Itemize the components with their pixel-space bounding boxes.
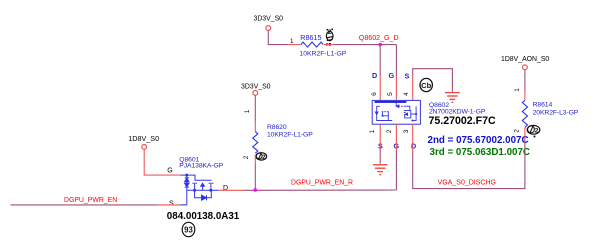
svg-text:DGPU_PWR_EN_R: DGPU_PWR_EN_R (291, 180, 353, 187)
wire R8615 pin2 to node Q8602_G_D (324, 44, 396, 46)
wire R8620 pin 2 down to node (254, 155, 256, 191)
wire Q8602 pin 1 to ground (379, 124, 381, 164)
component labels Q8602 (429, 102, 486, 116)
ground (top right) (445, 93, 460, 103)
svg-text:2: 2 (386, 129, 393, 133)
wire Q8602 pin 4 (S) to ground (top right) (413, 69, 453, 101)
svg-text:D: D (411, 142, 416, 151)
wire node to Q8602 pin 5 (G) (395, 45, 397, 101)
svg-text:3D3V_S0: 3D3V_S0 (254, 16, 284, 23)
svg-text:93: 93 (184, 226, 193, 235)
svg-text:084.00138.0A31: 084.00138.0A31 (167, 211, 240, 222)
svg-text:2: 2 (243, 155, 250, 159)
component labels Q8601 (179, 156, 223, 169)
wire 1D8V_AON_S0 to R8614 pin 1 (524, 70, 526, 101)
junction dot at R8620/Q8601-D node (254, 188, 258, 192)
resistor R8620 (253, 124, 313, 153)
svg-text:1: 1 (244, 109, 251, 113)
svg-text:Q8602_G_D: Q8602_G_D (359, 34, 399, 42)
svg-text:5: 5 (387, 92, 394, 96)
pin number 2 of R8620 with no-stuff marker (243, 153, 267, 161)
wire node to Q8602 pin 6 (D) (379, 45, 381, 101)
svg-text:1: 1 (514, 88, 521, 92)
power symbol 3D3V_S0 (top, feeds R8615) (254, 16, 284, 31)
resistor R8615 (300, 33, 347, 58)
power symbol 1D8V_S0 (128, 134, 159, 149)
svg-text:6: 6 (371, 92, 378, 96)
svg-text:G: G (389, 71, 395, 80)
svg-text:DGPU_PWR_EN: DGPU_PWR_EN (64, 197, 117, 204)
junction dot at Q8602_G_D node (378, 43, 382, 47)
svg-text:2: 2 (328, 29, 332, 36)
svg-text:R8615: R8615 (300, 33, 321, 42)
wire from 3D3V_S0 to R8615 pin 1 (268, 30, 300, 44)
transistor U Q8602 dual MOSFET box (372, 100, 420, 124)
transistor Q8601 (dual MOSFET with gate zeners) (181, 174, 219, 205)
svg-text:2: 2 (262, 154, 266, 161)
pin number 2 of R8614 with no-stuff marker (514, 125, 540, 137)
ground (below Q8602 pin 1) (373, 165, 388, 175)
wire DGPU_PWR_EN to Q8601 S (11, 204, 187, 206)
svg-text:S: S (169, 200, 174, 207)
Q8602 internal MOSFET B (right) (396, 103, 417, 121)
svg-text:G: G (167, 167, 172, 174)
svg-text:1D8V_AON_S0: 1D8V_AON_S0 (501, 56, 549, 63)
resistor R8614 (522, 100, 579, 127)
svg-text:VGA_S0_DISCHG: VGA_S0_DISCHG (438, 180, 496, 187)
svg-text:75.27002.F7C: 75.27002.F7C (429, 115, 496, 127)
svg-text:R8620: R8620 (267, 124, 287, 131)
wire 3D3V_S0 to R8620 pin 1 (254, 95, 256, 131)
svg-text:R8614: R8614 (533, 102, 553, 109)
power symbol 1D8V_AON_S0 (501, 56, 549, 70)
svg-text:S: S (405, 71, 410, 80)
svg-text:2: 2 (535, 128, 539, 135)
power symbol 3D3V_S0 (middle, feeds R8620) (241, 84, 271, 96)
svg-text:2: 2 (514, 129, 521, 133)
svg-text:10KR2F-L1-GP: 10KR2F-L1-GP (300, 51, 347, 58)
svg-text:4: 4 (403, 92, 410, 96)
marker Cb (circled) (420, 78, 432, 91)
wire 1D8V_S0 to Q8601 gate (144, 149, 180, 175)
svg-text:PJA138KA-GP: PJA138KA-GP (179, 162, 223, 169)
marker 93 (circled) (182, 222, 195, 236)
Q8602 internal MOSFET A (left) (375, 106, 392, 120)
svg-text:3rd = 075.063D1.007C: 3rd = 075.063D1.007C (430, 147, 531, 158)
svg-text:2nd = 075.67002.007C: 2nd = 075.67002.007C (428, 135, 529, 146)
pin number 2 of R8615 with no-stuff marker (326, 29, 334, 47)
svg-text:D: D (372, 71, 377, 80)
wire Q8601 D to node / DGPU_PWR_EN_R (219, 189, 397, 191)
svg-text:10KR2F-L1-GP: 10KR2F-L1-GP (267, 131, 313, 138)
svg-text:Cb: Cb (421, 81, 431, 90)
svg-text:1: 1 (369, 129, 376, 133)
svg-text:20KR2F-L3-GP: 20KR2F-L3-GP (533, 110, 579, 117)
wire Q8602 pin 3 (D) down right to R8614 bottom (VGA_S0_DISCHG) (413, 124, 525, 188)
svg-text:3: 3 (403, 129, 410, 133)
svg-text:3D3V_S0: 3D3V_S0 (241, 84, 271, 91)
svg-text:1: 1 (290, 38, 294, 45)
svg-text:1D8V_S0: 1D8V_S0 (128, 134, 159, 143)
wire Q8602 pin 2 (G) down to DGPU_PWR_EN_R (395, 124, 397, 190)
